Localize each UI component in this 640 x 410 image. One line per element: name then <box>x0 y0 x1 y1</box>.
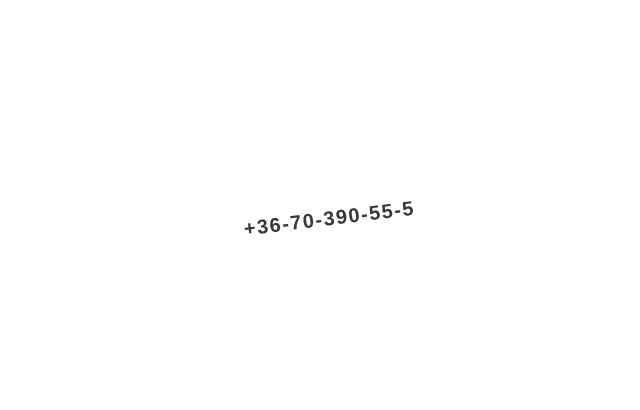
watermark phone number <box>243 198 416 241</box>
